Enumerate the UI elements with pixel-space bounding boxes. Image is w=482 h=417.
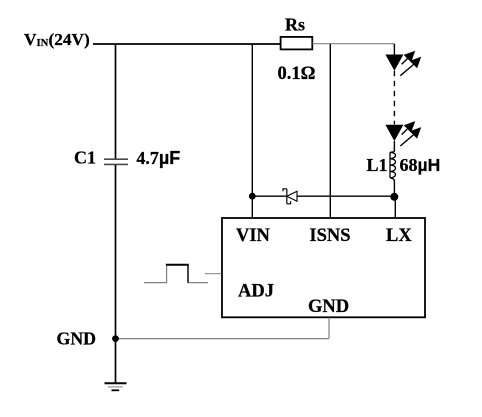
svg-text:LX: LX [386,226,412,246]
svg-text:GND: GND [308,297,349,317]
junction node at LX column [390,193,398,201]
wire GND rail [116,338,330,340]
wire dashed between LEDs [393,71,395,125]
wire ISNS pin drop (vertical to IC ISNS) [329,44,331,218]
inductor L1 [390,151,396,181]
svg-text:VIN(24V): VIN(24V) [24,30,90,49]
wire GND pin drop from IC bottom [328,318,330,339]
junction node at GND rail [112,335,119,342]
svg-text:VIN: VIN [236,226,271,246]
LED D1 [385,51,421,76]
junction node at VIN column [249,193,256,200]
wire left vertical from C1 bottom plate to GND node and ground [115,165,117,383]
wire mid rail right segment (diode anode to LX node) [297,195,394,197]
wire ADJ pin lead [205,273,222,275]
IC U1 box [222,218,425,317]
svg-text:68µH: 68µH [400,155,441,175]
wire VIN pin drop (vertical to IC VIN) [251,44,253,218]
svg-text:GND: GND [57,329,97,349]
svg-text:ADJ: ADJ [238,282,274,302]
resistor Rs [281,37,313,50]
svg-text:C1: C1 [74,148,96,168]
wire from Rs right to LED string top [312,43,394,45]
LED D2 [385,121,421,146]
diode D3 (schottky) [283,189,297,204]
svg-text:L1: L1 [367,155,388,175]
capacitor C1 [104,159,128,164]
svg-text:4.7µF: 4.7µF [136,148,180,168]
wire mid rail left segment (VIN node to diode cathode) [252,195,286,197]
wire LED string top stub [393,44,395,55]
ground symbol [105,383,127,390]
wire LED2 to L1 [393,141,395,152]
svg-text:ISNS: ISNS [309,226,350,246]
wire top rail from VIN label to Rs [93,43,281,45]
wire main left vertical (VIN rail down to C1 top plate) [115,44,117,159]
svg-text:Rs: Rs [285,15,305,35]
wire L1 bottom to LX node [393,180,395,197]
PWM square wave signal at ADJ [144,265,208,283]
svg-text:0.1Ω: 0.1Ω [278,64,316,84]
